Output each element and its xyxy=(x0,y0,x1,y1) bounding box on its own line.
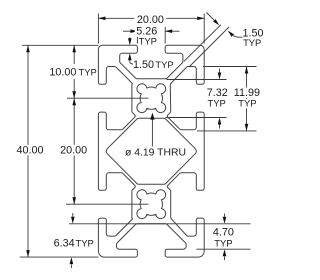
dim 1.50 TYP top wall arrows xyxy=(129,37,131,39)
ext cavity top y=66.5 xyxy=(203,66,257,68)
ext top edge left xyxy=(22,44,98,46)
dim 20.00 top xyxy=(98,17,204,19)
label 40.00 (overall height) xyxy=(14,145,46,156)
svg-text:ø 4.19 THRU: ø 4.19 THRU xyxy=(125,147,186,158)
middle octagonal cavity xyxy=(106,118,196,184)
upper center bore xyxy=(137,84,166,113)
svg-text:TYP: TYP xyxy=(139,36,157,47)
svg-text:20.00: 20.00 xyxy=(137,14,164,26)
svg-text:TYP: TYP xyxy=(155,59,173,70)
label 1.50 TYP (web thickness) xyxy=(243,28,264,39)
extrusion profile outline with T-slots xyxy=(98,45,204,257)
svg-text:TYP: TYP xyxy=(75,238,93,249)
label 1.50 TYP (wall thickness) xyxy=(133,60,154,71)
dim 4.70 TYP external arrows xyxy=(224,214,226,217)
ext web face lines (45deg) xyxy=(184,25,221,62)
dim 5.26 TYP xyxy=(123,30,137,32)
dim 40.00 xyxy=(27,45,29,257)
dim 10.00 TYP xyxy=(73,45,75,64)
svg-text:6.34: 6.34 xyxy=(54,238,75,250)
ext bottom wall inner face y=249.2 xyxy=(196,248,250,250)
svg-text:20.00: 20.00 xyxy=(60,144,87,156)
dim 1.50 TYP web arrows and leaders xyxy=(207,13,215,21)
leader ø4.19 THRU xyxy=(151,119,153,147)
svg-text:TYP: TYP xyxy=(243,37,261,48)
dim 20.00 left xyxy=(73,98,75,204)
dim 5.26 TYP extension lines xyxy=(136,27,138,44)
lower center bore xyxy=(137,190,166,219)
label 20.00 (top width) xyxy=(134,15,166,26)
label 4.70 TYP (slot depth) xyxy=(213,227,234,238)
ext slot1 centerline xyxy=(67,97,149,99)
label ø 4.19 THRU (center bore callout) xyxy=(123,147,189,157)
ext core2 south plane (long) xyxy=(69,223,251,225)
ext core south plane y=117.5 xyxy=(166,117,227,119)
svg-text:TYP: TYP xyxy=(207,97,225,108)
svg-text:40.00: 40.00 xyxy=(16,144,43,156)
label 11.99 TYP (cavity width) xyxy=(233,88,261,99)
dim 11.99 TYP xyxy=(246,67,248,131)
dim 20.00 top extension lines xyxy=(97,14,99,44)
ext slot2 centerline xyxy=(66,203,149,205)
label 7.32 TYP (core height) xyxy=(207,88,228,99)
label 5.26 TYP (slot opening) xyxy=(135,26,159,37)
label 20.00 (slot spacing) xyxy=(58,145,90,156)
dim 6.34 TYP external arrows xyxy=(72,213,74,217)
dim 7.32 TYP external arrows xyxy=(219,69,221,73)
svg-text:TYP: TYP xyxy=(78,66,96,77)
svg-text:TYP: TYP xyxy=(214,237,232,248)
ext bottom edge left xyxy=(20,256,99,258)
ext cavity bottom y=130.9 xyxy=(197,130,257,132)
svg-text:TYP: TYP xyxy=(238,97,256,108)
svg-text:1.50: 1.50 xyxy=(133,59,154,71)
ext core north plane y=79.5 xyxy=(167,79,227,81)
label 6.34 TYP xyxy=(54,238,75,249)
svg-text:10.00: 10.00 xyxy=(49,66,76,78)
label 10.00 TYP (slot centerline) xyxy=(49,67,77,78)
